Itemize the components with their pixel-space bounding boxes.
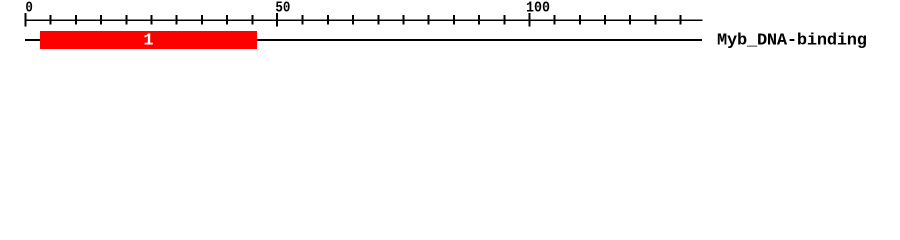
background xyxy=(0,0,900,58)
svg-text:0: 0 xyxy=(25,0,33,17)
ruler minor ticks xyxy=(50,15,682,25)
svg-text:Myb_DNA-binding: Myb_DNA-binding xyxy=(717,32,867,51)
ruler major tick 0 xyxy=(25,13,27,27)
protein backbone line xyxy=(25,39,702,41)
svg-text:50: 50 xyxy=(275,0,290,17)
domain box (red) xyxy=(40,31,257,49)
ruler line xyxy=(25,19,703,21)
ruler major tick 100 xyxy=(528,13,530,27)
svg-text:100: 100 xyxy=(526,0,550,17)
ruler major tick 50 xyxy=(276,13,278,27)
svg-text:1: 1 xyxy=(143,31,153,50)
